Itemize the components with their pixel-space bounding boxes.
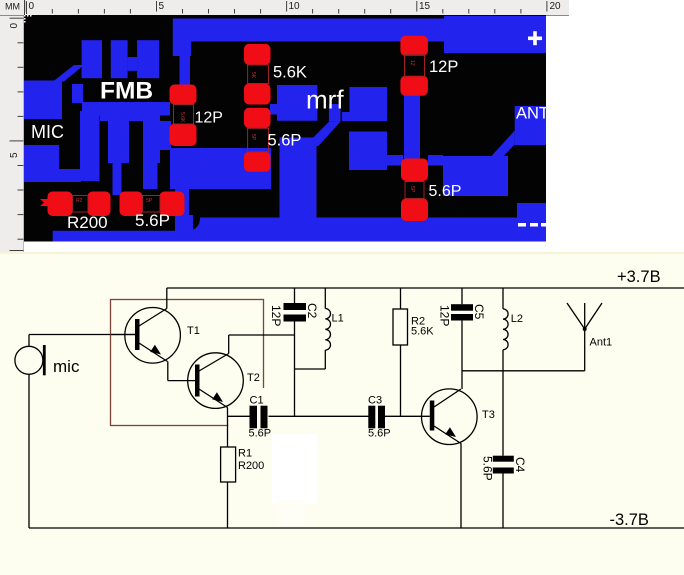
svg-text:C4: C4 bbox=[513, 457, 527, 473]
svg-text:C1: C1 bbox=[250, 395, 264, 407]
svg-text:C2: C2 bbox=[305, 303, 319, 319]
svg-text:C5: C5 bbox=[472, 304, 486, 320]
svg-text:5.6K: 5.6K bbox=[411, 326, 434, 338]
svg-text:mrf: mrf bbox=[306, 85, 344, 115]
svg-text:5.6K: 5.6K bbox=[179, 112, 185, 123]
svg-text:5P: 5P bbox=[250, 134, 256, 141]
svg-text:0: 0 bbox=[29, 1, 35, 12]
svg-text:12P: 12P bbox=[429, 58, 458, 76]
svg-text:12P: 12P bbox=[438, 305, 452, 326]
svg-text:T3: T3 bbox=[482, 409, 495, 421]
svg-text:5.6P: 5.6P bbox=[368, 428, 391, 440]
svg-text:+3.7B: +3.7B bbox=[617, 268, 661, 286]
svg-text:10: 10 bbox=[289, 1, 301, 12]
svg-text:L2: L2 bbox=[511, 313, 523, 325]
svg-text:5.6K: 5.6K bbox=[273, 64, 307, 82]
svg-text:R200: R200 bbox=[238, 460, 264, 472]
svg-text:5P: 5P bbox=[146, 198, 153, 204]
svg-text:12P: 12P bbox=[195, 110, 223, 127]
svg-text:L1: L1 bbox=[332, 313, 344, 325]
svg-text:5: 5 bbox=[9, 152, 20, 158]
svg-text:5.6P: 5.6P bbox=[135, 211, 170, 230]
svg-text:T1: T1 bbox=[187, 325, 200, 337]
svg-text:5.6P: 5.6P bbox=[481, 456, 495, 481]
svg-text:5P: 5P bbox=[409, 186, 415, 193]
svg-text:MIC: MIC bbox=[31, 122, 64, 142]
svg-text:R200: R200 bbox=[67, 213, 108, 232]
svg-text:R2: R2 bbox=[76, 198, 83, 204]
svg-text:C3: C3 bbox=[368, 395, 382, 407]
svg-text:15: 15 bbox=[419, 1, 431, 12]
svg-text:12P: 12P bbox=[269, 305, 283, 326]
svg-text:5.6P: 5.6P bbox=[268, 132, 302, 150]
svg-text:20: 20 bbox=[550, 1, 562, 12]
svg-text:5.6P: 5.6P bbox=[249, 428, 272, 440]
svg-text:mic: mic bbox=[53, 357, 80, 376]
svg-text:Ant1: Ant1 bbox=[590, 337, 613, 349]
svg-text:5: 5 bbox=[159, 1, 165, 12]
svg-text:12: 12 bbox=[409, 60, 415, 66]
svg-text:5.6P: 5.6P bbox=[429, 183, 462, 200]
svg-text:MM: MM bbox=[5, 2, 20, 12]
svg-text:R1: R1 bbox=[238, 448, 252, 460]
svg-text:ANT: ANT bbox=[516, 105, 549, 123]
svg-text:0: 0 bbox=[9, 23, 20, 29]
svg-text:-3.7B: -3.7B bbox=[610, 511, 649, 529]
svg-text:FMB: FMB bbox=[100, 78, 153, 105]
svg-text:T2: T2 bbox=[247, 372, 260, 384]
svg-text:5K: 5K bbox=[250, 72, 256, 79]
